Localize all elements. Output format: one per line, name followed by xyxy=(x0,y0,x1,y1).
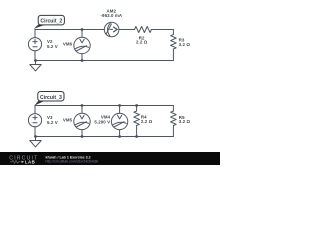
svg-text:3.2 Ω: 3.2 Ω xyxy=(179,119,191,124)
node dot VM4 top xyxy=(118,104,121,107)
node dot VM4 bottom xyxy=(118,135,121,138)
svg-text:2.2 Ω: 2.2 Ω xyxy=(136,40,148,45)
ammeter AM2 xyxy=(104,22,119,37)
voltage source V2 xyxy=(28,38,41,51)
svg-text:VM5: VM5 xyxy=(63,118,73,123)
wire top rail (Circuit_3) xyxy=(35,105,173,107)
svg-text:LAB: LAB xyxy=(25,159,36,164)
resistor R2 xyxy=(135,27,152,33)
svg-text:5.200 V: 5.200 V xyxy=(94,120,110,125)
voltmeter VM6 xyxy=(74,37,90,53)
wire V2 bottom lead xyxy=(34,51,36,61)
svg-text:V2: V2 xyxy=(47,39,53,44)
svg-text:VM6: VM6 xyxy=(63,42,73,47)
wire R3 bottom xyxy=(172,49,174,61)
label Circuit_3 callout xyxy=(34,92,64,106)
wire VM6 top lead xyxy=(81,30,83,38)
svg-text:5.2 V: 5.2 V xyxy=(47,120,58,125)
wire top rail mid (AM2 to R2) xyxy=(119,29,135,31)
wire top rail right xyxy=(152,29,174,31)
node dot ground Circuit_2 xyxy=(34,59,37,62)
wire VM5 bottom lead xyxy=(81,130,83,137)
node dot R4 bottom xyxy=(135,135,138,138)
svg-text:5.2 V: 5.2 V xyxy=(47,44,58,49)
wire VM5 top lead xyxy=(81,106,83,114)
resistor R3 xyxy=(171,35,177,49)
svg-text:Circuit_2: Circuit_2 xyxy=(40,19,62,25)
svg-text:3.2 Ω: 3.2 Ω xyxy=(179,42,191,47)
voltmeter VM4 xyxy=(111,113,127,129)
voltage source V3 xyxy=(28,114,41,127)
wire top rail left (Circuit_2) xyxy=(35,29,104,31)
svg-text:-963.0 mA: -963.0 mA xyxy=(100,13,122,18)
wire R5 bottom lead xyxy=(172,126,174,137)
wire V3 bottom lead xyxy=(34,127,36,137)
wire R5 top lead xyxy=(172,106,174,112)
node dot ground Circuit_3 xyxy=(34,135,37,138)
svg-text:http://circuitlab.com/c6xr24s5: http://circuitlab.com/c6xr24s5vb3k xyxy=(46,160,99,164)
footer logo resistor glyph xyxy=(10,160,21,163)
ammeter AM2 arrow xyxy=(113,27,117,32)
wire V3 top lead xyxy=(34,106,36,114)
wire V2 top lead xyxy=(34,30,36,38)
ground (Circuit_3) xyxy=(35,137,37,141)
node dot VM5 top xyxy=(81,104,84,107)
resistor R4 xyxy=(134,111,140,125)
ground (Circuit_2) xyxy=(35,61,37,65)
label Circuit_2 callout xyxy=(34,15,65,29)
svg-text:Circuit_3: Circuit_3 xyxy=(40,95,62,101)
svg-text:2.2 Ω: 2.2 Ω xyxy=(141,119,153,124)
wire bottom rail (Circuit_2) xyxy=(35,60,173,62)
node dot VM6 top xyxy=(81,28,84,31)
wire VM6 bottom lead xyxy=(81,54,83,61)
node dot VM6 bottom xyxy=(81,59,84,62)
resistor R5 xyxy=(171,111,177,125)
wire VM4 top lead xyxy=(119,106,121,114)
wire R4 top lead xyxy=(136,106,138,112)
svg-text:VM4: VM4 xyxy=(101,114,111,119)
footer bar xyxy=(0,152,220,165)
wire bottom rail (Circuit_3) xyxy=(35,136,173,138)
svg-text:V3: V3 xyxy=(47,115,53,120)
wire R4 bottom lead xyxy=(136,126,138,137)
node dot R4 top xyxy=(135,104,138,107)
wire VM4 bottom lead xyxy=(119,130,121,137)
voltmeter VM5 xyxy=(74,113,90,129)
node dot VM5 bottom xyxy=(81,135,84,138)
wire right drop to R3 xyxy=(172,30,174,35)
